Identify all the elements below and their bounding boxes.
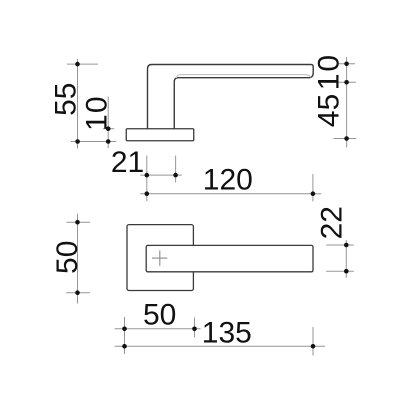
dimension 50 (rose height, plan view) xyxy=(51,214,90,304)
lever handle side view outline (neck and lever bar) xyxy=(148,65,314,130)
rose plate side view xyxy=(126,129,194,141)
dimension 120 (lever reach, side view) xyxy=(140,163,321,201)
svg-text:120: 120 xyxy=(203,163,253,196)
svg-text:21: 21 xyxy=(111,146,144,179)
dimension 55 (total height, side view) xyxy=(50,59,117,149)
square rose (plan view) xyxy=(127,225,193,291)
lever bar edge highlight line (side view) xyxy=(176,75,310,78)
svg-text:55: 55 xyxy=(50,83,83,116)
svg-text:50: 50 xyxy=(51,241,84,274)
svg-text:22: 22 xyxy=(316,206,349,239)
svg-text:0: 0 xyxy=(81,96,114,113)
dimension 135 (total length, plan view) xyxy=(115,316,326,355)
dimension 10 (rose plate thickness, side view) xyxy=(81,96,115,148)
spindle centre cross (plan view) xyxy=(152,250,167,265)
svg-text:1: 1 xyxy=(313,74,346,91)
svg-text:1: 1 xyxy=(81,114,114,131)
dimension 50 (rose width, plan view) xyxy=(115,298,201,354)
svg-text:50: 50 xyxy=(143,298,176,331)
dimension 21 (neck width, side view) xyxy=(111,146,182,201)
svg-text:45: 45 xyxy=(313,94,346,127)
dimension 22 (lever bar width, plan view) xyxy=(316,206,354,278)
svg-text:0: 0 xyxy=(313,55,346,72)
svg-text:135: 135 xyxy=(202,316,252,349)
dimensions 10 and 45 (lever thickness and drop, right side) xyxy=(313,55,357,148)
lever bar (plan view) xyxy=(146,245,313,271)
